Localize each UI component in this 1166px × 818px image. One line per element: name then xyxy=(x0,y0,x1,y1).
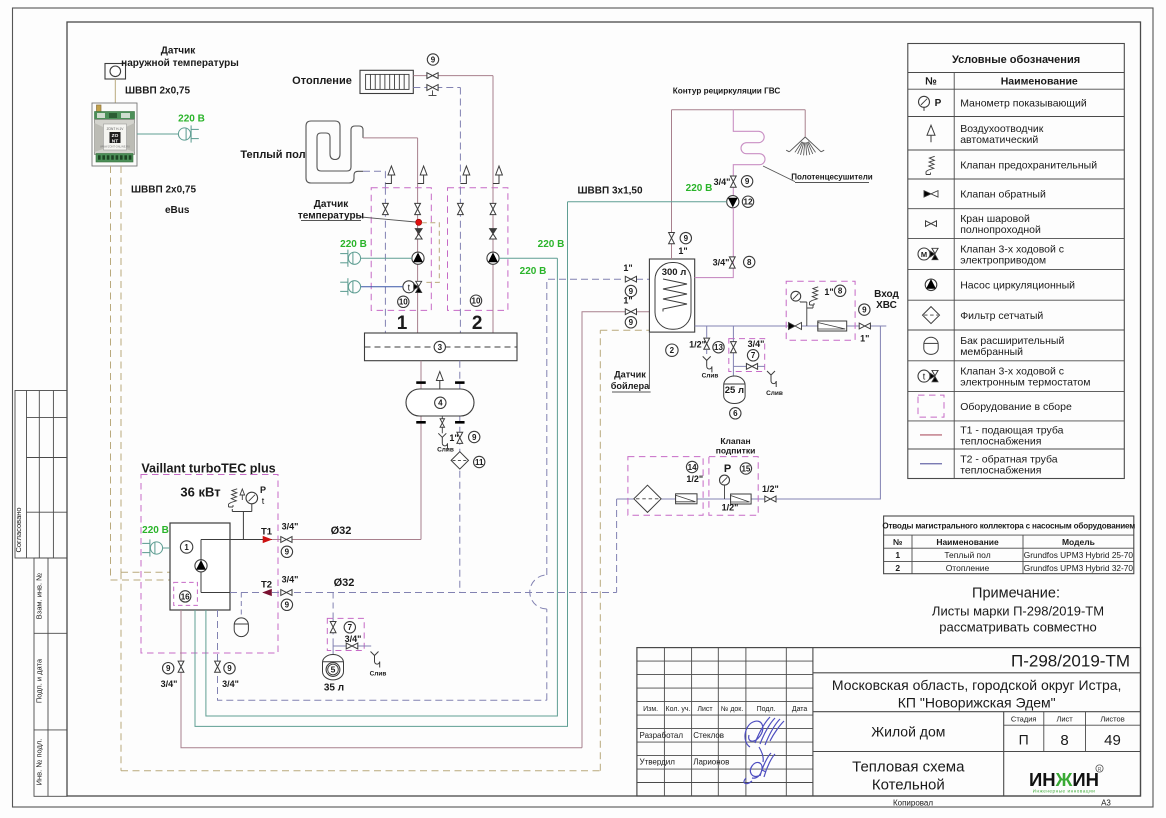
signature 2 xyxy=(744,753,775,784)
svg-text:220 В: 220 В xyxy=(340,239,367,250)
check valve cold water xyxy=(789,323,796,330)
title block frame xyxy=(637,648,1141,796)
svg-text:Подп. и дата: Подп. и дата xyxy=(35,658,44,703)
eBus wires from controller xyxy=(110,166,112,580)
svg-text:Вход: Вход xyxy=(874,289,899,300)
leader to Датчик температуры label xyxy=(361,217,416,222)
svg-text:P: P xyxy=(724,463,731,475)
boiler body xyxy=(170,523,230,610)
group 1 supply pipe xyxy=(417,188,419,333)
radiator supply riser xyxy=(492,76,494,188)
cold water line from tank xyxy=(695,325,887,327)
temperature sensor red dot xyxy=(416,219,422,225)
svg-text:9: 9 xyxy=(684,234,689,243)
svg-text:Копировал: Копировал xyxy=(893,799,933,808)
svg-text:Насос циркуляционный: Насос циркуляционный xyxy=(960,280,1075,292)
svg-text:№: № xyxy=(925,76,937,88)
expansion tank 35l assembly box 7 xyxy=(327,618,364,650)
svg-text:Ларионов: Ларионов xyxy=(693,758,729,767)
drain line 35l xyxy=(332,643,334,655)
svg-text:1: 1 xyxy=(184,543,189,552)
svg-text:подпитки: подпитки xyxy=(716,446,756,456)
circle 1 boiler xyxy=(180,541,192,553)
safety group stem xyxy=(800,301,813,326)
pump group 1 xyxy=(412,252,424,264)
svg-text:P: P xyxy=(260,485,266,495)
air vent on group 2 return xyxy=(463,166,470,175)
svg-text:9: 9 xyxy=(862,305,867,314)
circle 10 group 1 xyxy=(398,296,409,307)
svg-text:15: 15 xyxy=(741,464,750,473)
svg-text:Жилой дом: Жилой дом xyxy=(871,724,945,740)
warm floor return riser xyxy=(384,171,386,187)
pipe T2 to podpitka corner xyxy=(272,592,617,594)
pump group 2 assembly box xyxy=(448,188,508,311)
drain line 25l xyxy=(733,365,764,367)
svg-text:Тепловая схема: Тепловая схема xyxy=(852,759,965,776)
outlets table xyxy=(884,516,1134,574)
legend row T2 xyxy=(920,463,942,465)
ball valve boiler DHW return xyxy=(215,661,221,672)
tank drain branch 13 xyxy=(706,326,708,338)
svg-text:10: 10 xyxy=(399,298,408,307)
svg-text:№ док.: № док. xyxy=(721,706,743,713)
group 2 supply pipe xyxy=(492,188,494,333)
svg-text:10: 10 xyxy=(472,297,481,306)
svg-text:9: 9 xyxy=(166,664,171,673)
legend row T1 xyxy=(920,434,942,436)
svg-text:Согласовано: Согласовано xyxy=(14,507,23,552)
svg-text:Клапан предохранительный: Клапан предохранительный xyxy=(960,159,1097,171)
svg-text:5: 5 xyxy=(331,665,336,675)
ball valve group 2 supply xyxy=(490,203,496,214)
wire pump2 to 220V riser xyxy=(499,257,557,259)
plug 220V boiler xyxy=(150,542,162,554)
svg-text:Слив: Слив xyxy=(370,671,387,678)
svg-text:3/4": 3/4" xyxy=(282,575,299,585)
pipe to 25l tank xyxy=(732,366,734,375)
ball valve on radiator return xyxy=(427,85,438,91)
ball valve on return drop xyxy=(457,432,463,443)
DHW supply riser to tank xyxy=(582,312,649,748)
pipe T1 out of boiler xyxy=(230,539,272,541)
group 1 return pipe xyxy=(384,188,386,333)
outdoor temperature sensor xyxy=(105,64,126,80)
boiler assembly box xyxy=(141,475,278,654)
pump group 2 xyxy=(487,252,499,264)
svg-text:Клапан обратный: Клапан обратный xyxy=(960,189,1046,201)
svg-text:автоматический: автоматический xyxy=(960,134,1038,146)
svg-text:КП "Новорижская Эдем": КП "Новорижская Эдем" xyxy=(898,695,1056,711)
svg-text:теплоснабжения: теплоснабжения xyxy=(960,464,1041,476)
svg-text:Утвердил: Утвердил xyxy=(640,758,676,767)
recirculation pipe to tank port xyxy=(695,208,734,278)
legend row насос xyxy=(925,279,937,291)
title block left grid xyxy=(637,660,813,662)
arrow T2 xyxy=(263,589,272,595)
eBus bottom bus xyxy=(121,770,600,772)
svg-text:Фильтр сетчатый: Фильтр сетчатый xyxy=(960,310,1043,322)
svg-text:электронным термостатом: электронным термостатом xyxy=(960,377,1090,389)
svg-text:ZO: ZO xyxy=(112,133,119,139)
air vent on group 2 supply xyxy=(496,166,503,175)
svg-text:1": 1" xyxy=(824,287,833,297)
shower spray symbol xyxy=(786,137,824,152)
ZONT controller device xyxy=(92,103,137,166)
svg-text:220 В: 220 В xyxy=(538,239,565,250)
svg-text:9: 9 xyxy=(745,177,750,186)
ball valve group 2 return xyxy=(458,203,464,214)
svg-text:1/2": 1/2" xyxy=(686,474,703,484)
svg-text:4: 4 xyxy=(438,399,443,408)
ball valve 8 recirculation xyxy=(729,257,735,268)
svg-text:1": 1" xyxy=(860,334,869,344)
hydraulic separator 4 xyxy=(406,389,474,416)
boiler expansion vessel xyxy=(234,618,248,637)
svg-text:Отопление: Отопление xyxy=(292,75,352,87)
svg-text:ZONT H-1V: ZONT H-1V xyxy=(107,127,125,131)
makeup water branch xyxy=(617,326,881,499)
assembly box 7b (25l) xyxy=(729,339,765,372)
radiator return pipe xyxy=(413,87,460,89)
sliv hook 35l xyxy=(371,652,379,656)
svg-text:Ø32: Ø32 xyxy=(334,577,355,589)
recirculation top line xyxy=(672,109,806,111)
ball valve group 1 return xyxy=(383,203,389,214)
svg-text:Инженерные инновации: Инженерные инновации xyxy=(1033,789,1096,794)
legend row кран шаровой xyxy=(926,221,937,227)
svg-text:1": 1" xyxy=(678,246,687,256)
ball valve boiler DHW supply xyxy=(178,661,184,672)
tank coil xyxy=(663,279,687,312)
svg-text:12: 12 xyxy=(744,198,753,207)
ball valve 25l xyxy=(731,342,737,353)
plug 220V for controller xyxy=(178,128,190,140)
svg-text:Дата: Дата xyxy=(792,706,808,713)
svg-text:220 В: 220 В xyxy=(686,183,713,194)
svg-text:Наименование: Наименование xyxy=(1001,76,1078,88)
svg-text:9: 9 xyxy=(472,433,477,442)
separator drain valve xyxy=(441,416,443,419)
svg-text:Ø32: Ø32 xyxy=(331,525,352,537)
svg-text:Условные обозначения: Условные обозначения xyxy=(952,54,1080,66)
svg-text:Датчик: Датчик xyxy=(314,199,350,210)
svg-text:35 л: 35 л xyxy=(324,683,344,694)
check valve group 1 xyxy=(415,229,422,234)
air vent on group 1 supply xyxy=(420,166,427,175)
svg-text:Датчик: Датчик xyxy=(161,46,197,57)
ball valve T1 3/4 xyxy=(281,537,292,543)
svg-text:Московская область, городской: Московская область, городской округ Истр… xyxy=(832,677,1122,693)
eBus riser to boiler tank sensor xyxy=(599,330,601,771)
svg-text:M: M xyxy=(921,250,927,259)
svg-text:Наименование: Наименование xyxy=(936,537,999,547)
svg-text:Взам. инв. №: Взам. инв. № xyxy=(35,573,44,619)
svg-text:полнопроходной: полнопроходной xyxy=(960,224,1041,236)
svg-text:ШВВП 3x1,50: ШВВП 3x1,50 xyxy=(578,186,643,197)
legend row предохранительный xyxy=(929,156,935,170)
makeup valve 1/2 xyxy=(765,496,776,502)
svg-text:R: R xyxy=(1098,767,1102,773)
separator drain sliv xyxy=(441,427,443,433)
svg-text:1": 1" xyxy=(449,433,458,443)
eBus trunk down-left xyxy=(120,572,122,771)
ball valve on radiator supply xyxy=(427,73,438,79)
boiler air vent small xyxy=(240,489,245,495)
svg-text:Лист: Лист xyxy=(697,706,713,713)
collector supply drop xyxy=(420,361,422,540)
svg-text:49: 49 xyxy=(1104,732,1121,749)
svg-text:Разработал: Разработал xyxy=(640,731,684,740)
legend row оборудование в сборе xyxy=(918,395,944,417)
ball valve HVS xyxy=(859,323,870,329)
legend row обратный клапан xyxy=(924,191,931,197)
svg-text:3/4": 3/4" xyxy=(282,522,299,532)
air vent on group 1 return xyxy=(388,166,395,175)
pipe T1 to collector drop xyxy=(272,539,421,541)
pressure reducer 15 xyxy=(731,494,752,504)
svg-text:Vaillant turboTEC plus: Vaillant turboTEC plus xyxy=(141,462,275,476)
svg-text:3/4": 3/4" xyxy=(748,339,765,349)
collector 3 xyxy=(365,333,518,361)
towel warmer serpentine xyxy=(733,110,765,176)
tank sensor line xyxy=(648,332,650,389)
expansion tank 35l branch xyxy=(332,593,334,619)
svg-text:№: № xyxy=(893,537,903,547)
svg-text:13: 13 xyxy=(714,343,723,352)
legend row фильтр xyxy=(923,307,940,324)
svg-text:рассматривать совместно: рассматривать совместно xyxy=(939,620,1097,635)
expansion tank 25l xyxy=(724,376,745,404)
svg-text:Контур рециркуляции ГВС: Контур рециркуляции ГВС xyxy=(673,87,781,96)
svg-text:7: 7 xyxy=(348,623,353,632)
drain valve 35l xyxy=(346,643,358,649)
svg-text:3/4": 3/4" xyxy=(345,634,362,644)
svg-text:А3: А3 xyxy=(1101,799,1111,808)
DHW return riser from tank xyxy=(547,279,650,700)
makeup drop to T2 xyxy=(616,499,618,593)
svg-text:16: 16 xyxy=(181,592,190,601)
svg-text:Изм.: Изм. xyxy=(643,706,658,713)
arrow T1 xyxy=(263,536,272,542)
svg-text:2: 2 xyxy=(670,346,675,355)
object address rows xyxy=(813,711,1141,713)
recirculation return pipe xyxy=(732,176,734,197)
check valve group 2 xyxy=(490,229,497,234)
crossing hop on DHW return xyxy=(530,575,547,609)
DHW supply pipe from boiler xyxy=(181,610,582,748)
svg-text:2: 2 xyxy=(895,563,900,573)
plug 220V pump1 xyxy=(348,252,360,264)
svg-text:3/4": 3/4" xyxy=(222,679,239,689)
safety group gauge xyxy=(791,291,801,301)
doc number П-298/2019-ТМ row xyxy=(813,672,1141,674)
svg-text:бойлера: бойлера xyxy=(611,381,650,391)
svg-text:eBus: eBus xyxy=(165,205,190,216)
svg-text:Лист: Лист xyxy=(1056,715,1073,724)
boiler expansion vessel stem xyxy=(240,593,242,618)
svg-text:ХВС: ХВС xyxy=(876,300,897,311)
radiator Отопление xyxy=(360,70,413,93)
svg-text:Датчик: Датчик xyxy=(614,370,646,380)
svg-text:П-298/2019-ТМ: П-298/2019-ТМ xyxy=(1011,652,1130,671)
svg-text:Grundfos UPM3 Hybrid 25-70: Grundfos UPM3 Hybrid 25-70 xyxy=(1024,550,1134,560)
warm floor supply riser xyxy=(417,138,419,188)
union flanges above separator xyxy=(416,381,426,384)
svg-text:ШВВП 2x0,75: ШВВП 2x0,75 xyxy=(131,185,196,196)
3-way valve with thermostat group 1 xyxy=(403,281,415,293)
svg-text:9: 9 xyxy=(629,318,634,327)
DHW tank body xyxy=(649,259,694,332)
boiler controller box 16 xyxy=(174,582,198,605)
svg-text:T2: T2 xyxy=(261,580,272,591)
boiler internal loop xyxy=(200,540,202,593)
svg-text:Клапан: Клапан xyxy=(720,436,750,446)
svg-text:1: 1 xyxy=(895,550,900,560)
svg-text:наружной температуры: наружной температуры xyxy=(121,58,239,69)
svg-text:Стеклов: Стеклов xyxy=(693,731,724,740)
svg-text:220 В: 220 В xyxy=(142,525,169,536)
svg-text:220 В: 220 В xyxy=(178,114,205,125)
svg-text:1/2": 1/2" xyxy=(762,484,779,494)
union flanges below separator xyxy=(416,421,426,424)
tank top hot water riser xyxy=(671,110,673,259)
legend row воздухоотводчик xyxy=(927,125,935,135)
collector return drop xyxy=(459,361,461,593)
svg-text:Подл.: Подл. xyxy=(757,706,776,713)
ball valve 35l tank xyxy=(330,622,336,633)
svg-text:9: 9 xyxy=(227,664,232,673)
svg-text:WWW.ZONT-ONLINE.RU: WWW.ZONT-ONLINE.RU xyxy=(100,145,130,149)
svg-text:36 кВт: 36 кВт xyxy=(180,485,220,500)
svg-text:Отопление: Отопление xyxy=(946,563,990,573)
pump group 1 assembly box xyxy=(371,188,431,311)
svg-text:25 л: 25 л xyxy=(725,385,744,396)
svg-text:300 л: 300 л xyxy=(662,267,687,278)
group 2 return pipe xyxy=(459,188,461,333)
expansion tank 25l branch xyxy=(732,326,734,339)
ball valve tank top xyxy=(669,233,675,244)
eBus wire into boiler (upper) xyxy=(121,571,170,573)
safety group assembly box 8 xyxy=(786,281,855,340)
DHW return pipe to boiler xyxy=(218,610,547,700)
svg-text:Модель: Модель xyxy=(1062,537,1095,547)
svg-text:2: 2 xyxy=(472,313,483,334)
svg-text:мембранный: мембранный xyxy=(960,346,1023,358)
svg-text:Стадия: Стадия xyxy=(1011,715,1037,724)
svg-text:Слив: Слив xyxy=(437,447,454,454)
wire to tank sensor xyxy=(600,329,649,331)
boiler pressure gauge xyxy=(246,492,258,504)
main strainer filter xyxy=(818,321,847,331)
svg-text:Листов: Листов xyxy=(1100,715,1124,724)
legend row бак расширительный xyxy=(924,337,938,354)
svg-text:1": 1" xyxy=(623,263,632,273)
circle 2 tank xyxy=(666,344,678,356)
section Жилой дом + Стадия/Лист/Листов xyxy=(813,751,1141,753)
svg-text:Полотенцесушители: Полотенцесушители xyxy=(791,173,872,182)
shower outlet drop xyxy=(804,110,806,137)
left stamp boxes (Взам/Подп/Инв) xyxy=(34,558,67,796)
recirculation pump 12 xyxy=(727,196,739,208)
circle 10 group 2 xyxy=(470,295,481,306)
strainer filter 11 xyxy=(451,452,468,469)
power wire bus 2 (recirculation pump) xyxy=(195,202,568,727)
wire to pump 12 xyxy=(568,201,727,203)
leader to towel warmer label xyxy=(763,166,795,182)
wire pump1 to 220V plug xyxy=(361,257,412,259)
circle 6 xyxy=(730,408,741,419)
svg-text:7: 7 xyxy=(751,351,756,360)
wire sensor to controller xyxy=(114,79,116,103)
legend table frame xyxy=(908,44,1125,479)
svg-text:8: 8 xyxy=(747,258,752,267)
svg-text:Примечание:: Примечание: xyxy=(972,586,1060,602)
svg-text:теплоснабжения: теплоснабжения xyxy=(960,435,1041,447)
svg-text:3: 3 xyxy=(438,343,443,352)
warm floor supply pipe xyxy=(363,137,418,139)
sliv hook 25l xyxy=(767,371,775,375)
legend row 3-way термостат xyxy=(918,370,930,382)
svg-text:9: 9 xyxy=(431,55,436,64)
svg-text:1": 1" xyxy=(623,296,632,306)
svg-text:Grundfos UPM3 Hybrid 32-70: Grundfos UPM3 Hybrid 32-70 xyxy=(1024,563,1134,573)
svg-text:T1: T1 xyxy=(261,527,273,538)
svg-text:6: 6 xyxy=(733,409,738,418)
svg-text:Котельной: Котельной xyxy=(872,777,945,794)
ball valve tank DHW-supply port xyxy=(625,309,636,315)
radiator supply pipe xyxy=(413,75,493,77)
boiler safety group stem xyxy=(232,504,252,540)
svg-text:8: 8 xyxy=(838,287,843,296)
boiler safety valve glyph xyxy=(231,489,237,503)
radiator return riser xyxy=(459,88,461,188)
svg-text:220 В: 220 В xyxy=(520,266,547,277)
makeup assembly box 15 xyxy=(709,457,758,516)
svg-text:ШВВП 2x0,75: ШВВП 2x0,75 xyxy=(125,86,190,97)
ball valve group 1 supply xyxy=(415,203,421,214)
svg-text:14: 14 xyxy=(688,463,697,472)
svg-text:Теплый пол: Теплый пол xyxy=(944,550,990,560)
svg-text:ИНЖИН: ИНЖИН xyxy=(1029,769,1099,790)
svg-text:9: 9 xyxy=(285,548,290,557)
svg-text:Оборудование в сборе: Оборудование в сборе xyxy=(960,401,1072,413)
svg-text:Инв. № подл.: Инв. № подл. xyxy=(35,739,44,786)
eBus wire into boiler (lower) xyxy=(111,579,171,581)
valve 9 above radiator xyxy=(427,54,438,65)
warm floor return pipe xyxy=(363,170,385,172)
svg-text:8: 8 xyxy=(1060,732,1068,749)
legend row 3-way электропривод xyxy=(918,248,930,260)
wire 220V to ZONT xyxy=(137,133,178,135)
makeup assembly box 14 xyxy=(628,457,703,516)
svg-text:P: P xyxy=(935,98,942,109)
svg-text:электроприводом: электроприводом xyxy=(960,255,1046,267)
safety group safety valve xyxy=(812,287,818,301)
svg-text:1: 1 xyxy=(397,313,408,334)
legend row манометр xyxy=(919,96,930,107)
boiler internal pump xyxy=(195,560,207,572)
svg-text:Теплый пол: Теплый пол xyxy=(240,149,305,161)
svg-text:11: 11 xyxy=(475,458,484,467)
makeup check valve xyxy=(676,494,697,504)
wire 3-way valve to plug xyxy=(361,286,403,288)
sliv hook 13 xyxy=(703,356,711,360)
svg-text:3/4": 3/4" xyxy=(714,177,731,187)
left stamp grid (Согласовано) xyxy=(15,391,67,559)
air vent above separator xyxy=(436,372,443,381)
ball valve T2 3/4 xyxy=(281,590,292,596)
